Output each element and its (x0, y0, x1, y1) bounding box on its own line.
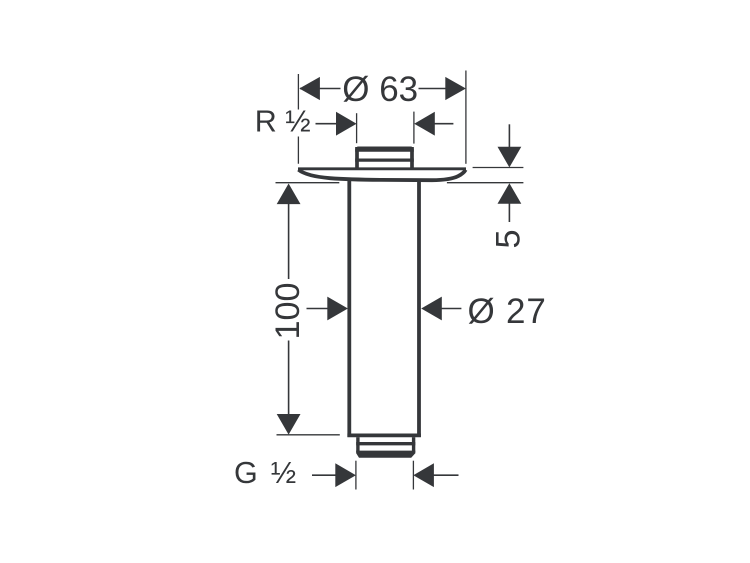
flange top line (298, 167, 466, 170)
dim 5 top extension line (473, 167, 524, 169)
dim Ø63 left arrowhead (299, 77, 320, 100)
svg-text:100: 100 (269, 282, 307, 339)
svg-text:5: 5 (490, 229, 528, 248)
svg-text:Ø 63: Ø 63 (342, 70, 418, 109)
dim G1/2 label (234, 456, 296, 490)
dim G1/2 left extension line (355, 461, 357, 490)
dim 100 leader line (307, 308, 331, 310)
G1/2 thread end left wall (356, 437, 359, 452)
dim R1/2 right extension line (413, 112, 415, 144)
dim G1/2 left arrowhead (335, 463, 356, 487)
dim 5 bottom extension line (447, 182, 524, 184)
dim Ø63 line left segment (300, 88, 341, 90)
dim Ø63 label (342, 70, 418, 109)
dim 5 lower stem (508, 203, 510, 222)
pipe bottom bar (347, 434, 421, 438)
dim Ø63 left extension line (broken for R1/2 text) (297, 74, 299, 164)
thread box top bar (355, 147, 414, 152)
dim R1/2 label (255, 105, 311, 139)
dim 5 up arrowhead (498, 183, 522, 204)
dim Ø63 right extension line (465, 71, 467, 164)
dim R1/2 left arrowhead (336, 112, 357, 136)
dim 5 label (rotated) (490, 229, 528, 248)
dim 5 down arrowhead (498, 147, 522, 168)
dim Ø63 right arrowhead (445, 77, 466, 100)
pipe left wall (347, 180, 351, 438)
dim 100 leader arrowhead (327, 297, 348, 321)
dim 100 up arrowhead (277, 184, 301, 205)
dim 100 top extension line (flange bottom) (276, 182, 340, 184)
pipe right wall (417, 180, 421, 438)
dim Ø63 line right segment (419, 88, 447, 90)
dim 100 label (rotated) (269, 282, 307, 339)
dim Ø27 arrowhead (421, 297, 442, 321)
dim Ø27 leader line (441, 308, 461, 310)
dim G1/2 line left segment (312, 474, 337, 476)
dim R1/2 line right segment (433, 123, 453, 125)
thread box top (right wall) (410, 147, 414, 168)
flange underside curve (298, 170, 465, 181)
svg-text:R ½: R ½ (255, 105, 311, 139)
dim R1/2 right arrowhead (414, 112, 435, 136)
svg-text:G ½: G ½ (234, 456, 296, 490)
dim R1/2 line left segment (316, 123, 339, 125)
dim G1/2 right arrowhead (413, 463, 434, 487)
dim Ø27 label (468, 292, 547, 331)
thread box R1/2 top (left wall) (355, 147, 359, 168)
dim 100 bottom extension line (pipe bottom) (277, 434, 340, 436)
dim 100 line upper segment (288, 204, 290, 279)
svg-text:Ø 27: Ø 27 (468, 292, 547, 331)
dim 100 down arrowhead (277, 414, 301, 435)
G1/2 thread stripe (356, 442, 415, 445)
dim 5 upper stem (508, 124, 510, 148)
thread box stripe (355, 159, 414, 162)
dim 100 line lower segment (288, 341, 290, 415)
dim G1/2 line right segment (433, 474, 459, 476)
dim R1/2 left extension line (356, 113, 358, 143)
dim G1/2 right extension line (412, 461, 414, 490)
G1/2 thread end right wall (412, 437, 415, 452)
G1/2 thread bottom block (356, 451, 415, 458)
